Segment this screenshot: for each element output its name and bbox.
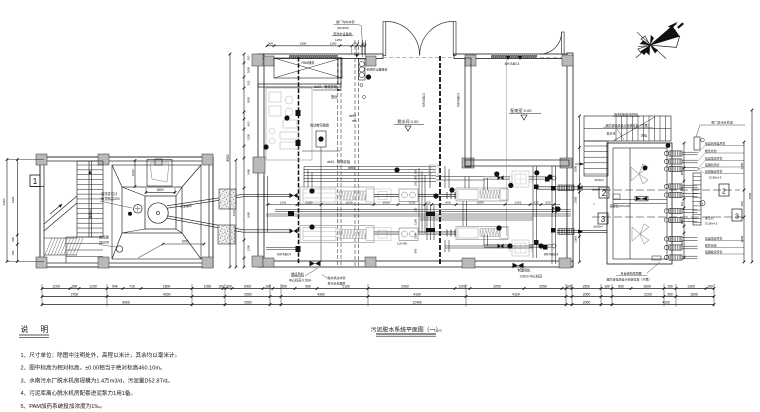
svg-text:1600: 1600 [643, 284, 651, 288]
sludge hopper with X funnel [112, 165, 201, 259]
svg-text:400: 400 [247, 121, 251, 126]
left room labels [88, 191, 193, 247]
svg-text:2000: 2000 [583, 292, 591, 296]
svg-text:推生化池: 推生化池 [705, 148, 717, 153]
svg-text:1250: 1250 [330, 42, 337, 46]
svg-text:MF/ABC4: MF/ABC4 [277, 253, 291, 257]
expansion joint dark dashed line [439, 56, 441, 265]
svg-text:风操: 风操 [641, 133, 647, 138]
bottom dimension chain row 3 [41, 300, 716, 305]
gray dashed pipe verticals [338, 40, 366, 266]
svg-text:接臭氧除臭风管: 接臭氧除臭风管 [705, 141, 725, 146]
svg-text:900: 900 [414, 248, 418, 253]
sewer label [694, 120, 745, 151]
svg-text:楼适风机: 楼适风机 [291, 272, 305, 277]
svg-text:中心标高 0.50m: 中心标高 0.50m [289, 278, 312, 283]
fan symbol lower [632, 224, 649, 244]
svg-text:de32，管线安装: de32，管线安装 [314, 84, 338, 89]
svg-text:425: 425 [533, 200, 538, 204]
svg-text:300: 300 [226, 284, 232, 288]
left room: sludge hopper & stair room outer walls [40, 157, 213, 267]
pipes into deodor unit with section labels [552, 176, 631, 248]
svg-text:600: 600 [618, 284, 624, 288]
svg-text:4200: 4200 [163, 292, 171, 296]
svg-text:200: 200 [281, 284, 287, 288]
svg-text:PAM储存: PAM储存 [301, 60, 315, 65]
svg-text:2000: 2000 [583, 300, 591, 304]
hopper dims [131, 159, 206, 258]
columns of left room [36, 154, 213, 268]
svg-text:1:100: 1:100 [434, 329, 442, 333]
svg-text:2500: 2500 [244, 292, 252, 296]
svg-text:1050: 1050 [414, 233, 418, 239]
fan symbol upper [631, 164, 648, 184]
svg-text:100: 100 [566, 284, 572, 288]
screw conveyor M4 [456, 227, 508, 240]
svg-text:（DN100）: （DN100） [335, 26, 351, 30]
svg-text:4300: 4300 [2, 198, 6, 205]
deodor stub labels right [698, 141, 745, 255]
svg-text:污泥脱水系统平面图（一）: 污泥脱水系统平面图（一） [371, 326, 442, 334]
deodor area dots [643, 143, 671, 170]
svg-text:1999: 1999 [477, 200, 484, 204]
svg-text:300: 300 [740, 201, 744, 206]
svg-text:1600: 1600 [690, 292, 698, 296]
drawing title [371, 326, 442, 337]
svg-text:WF/ABC4: WF/ABC4 [544, 253, 558, 257]
svg-text:450: 450 [680, 219, 684, 224]
svg-text:4100: 4100 [662, 300, 670, 304]
svg-text:1200: 1200 [52, 284, 60, 288]
svg-text:450: 450 [680, 186, 684, 191]
main building left wall [258, 55, 264, 267]
svg-text:1650: 1650 [181, 240, 188, 244]
svg-text:管顶标高300: 管顶标高300 [101, 196, 120, 201]
machine-row dimension texts [266, 200, 560, 206]
svg-text:525: 525 [545, 200, 550, 204]
svg-text:D159x4.5: D159x4.5 [705, 222, 718, 226]
grid bubble 1 [30, 175, 44, 187]
bottom dimension chain row 2 [41, 292, 716, 297]
svg-text:2500: 2500 [244, 300, 252, 304]
svg-text:推生化池: 推生化池 [705, 243, 717, 248]
machine room piping [264, 89, 607, 264]
PAM storage room [258, 58, 342, 87]
svg-text:808: 808 [445, 200, 450, 204]
svg-text:至厂区污水管道: 至厂区污水管道 [711, 120, 733, 125]
svg-text:1250: 1250 [335, 38, 342, 42]
building columns [252, 54, 573, 268]
svg-text:200: 200 [11, 237, 15, 242]
svg-text:配电室 0.00: 配电室 0.00 [511, 107, 533, 113]
svg-text:4、污泥库离心脱水机房配套进泥泵力1用1备。: 4、污泥库离心脱水机房配套进泥泵力1用1备。 [21, 389, 137, 397]
notes body [21, 351, 181, 410]
svg-text:400: 400 [353, 42, 358, 46]
svg-text:1800: 1800 [163, 284, 171, 288]
svg-text:750: 750 [351, 119, 356, 123]
svg-text:1480: 1480 [247, 168, 251, 175]
svg-text:150: 150 [414, 207, 418, 212]
svg-text:780: 780 [11, 250, 15, 255]
right yard vertical dims [573, 115, 581, 264]
svg-text:超声波电源设计安装位置（不属）: 超声波电源设计安装位置（不属） [605, 123, 650, 128]
svg-text:接臭塔双风管: 接臭塔双风管 [705, 156, 722, 161]
svg-text:接厂内中水管: 接厂内中水管 [336, 19, 355, 24]
small fittings in left room [116, 205, 142, 253]
svg-text:2050: 2050 [493, 284, 501, 288]
svg-text:900: 900 [305, 284, 311, 288]
svg-text:1800: 1800 [156, 188, 163, 192]
dark vertical pipe run x298 [298, 57, 300, 265]
svg-text:1: 1 [33, 176, 38, 186]
svg-text:2200: 2200 [740, 235, 744, 242]
deodor right pipe stubs (finned combs) [664, 151, 697, 260]
notes header [19, 324, 53, 337]
svg-text:2900: 2900 [401, 284, 409, 288]
sludge pipes from hopper to building [167, 194, 291, 232]
feed pump unit P1 [399, 189, 418, 202]
svg-text:接臭塔双风管: 接臭塔双风管 [705, 236, 722, 241]
PAM dosing equipment (gray) [266, 88, 312, 160]
svg-text:1050: 1050 [204, 284, 212, 288]
screw conveyor M3 [456, 188, 508, 201]
svg-text:150: 150 [414, 181, 418, 186]
floor drain valves on bottom wall [310, 261, 524, 269]
svg-text:MF/ABC4: MF/ABC4 [422, 93, 426, 107]
svg-text:1300: 1300 [573, 236, 577, 243]
svg-text:2200: 2200 [740, 162, 744, 169]
svg-text:1200: 1200 [247, 244, 251, 251]
centrifuge machine M1 [300, 187, 391, 204]
svg-text:1028: 1028 [383, 200, 390, 204]
svg-text:100: 100 [604, 284, 610, 288]
svg-text:200: 200 [247, 80, 251, 85]
svg-text:1600: 1600 [573, 196, 577, 203]
svg-text:12400: 12400 [412, 300, 421, 304]
svg-text:1000: 1000 [131, 169, 135, 176]
labels in upper hall [310, 84, 357, 262]
svg-text:说 明: 说 明 [21, 324, 54, 334]
main building top wall [258, 54, 567, 59]
svg-text:舟台结构风雨棚: 舟台结构风雨棚 [620, 271, 641, 276]
dewatering hall label [394, 118, 424, 131]
svg-text:1200: 1200 [458, 284, 466, 288]
main building right wall [567, 53, 573, 267]
power room label [509, 107, 541, 120]
svg-text:600: 600 [680, 201, 684, 206]
svg-text:8500: 8500 [226, 154, 230, 161]
concrete pipe-trench hatched blocks [218, 189, 236, 244]
ramp with arrow (left room lower-left) [44, 196, 83, 255]
svg-text:100: 100 [414, 175, 418, 180]
svg-text:1800: 1800 [247, 66, 251, 73]
main building bottom wall [258, 261, 573, 267]
svg-text:710: 710 [129, 284, 135, 288]
svg-text:540: 540 [112, 284, 118, 288]
svg-text:脱水间 0.00: 脱水间 0.00 [398, 118, 420, 124]
small rotated dims near pump cluster [397, 169, 417, 253]
svg-text:300: 300 [72, 284, 78, 288]
svg-text:制适风机: 制适风机 [518, 268, 532, 273]
svg-text:100: 100 [218, 284, 224, 288]
svg-text:D159x4.5: D159x4.5 [709, 176, 722, 180]
svg-text:溢流井位计: 溢流井位计 [101, 191, 118, 196]
svg-text:1000: 1000 [573, 165, 577, 172]
bottom dimension chain row 1 [41, 284, 716, 289]
svg-text:1301: 1301 [280, 200, 287, 204]
bottom wall labels with leaders [289, 268, 543, 286]
svg-text:1300: 1300 [414, 219, 418, 225]
stairs right (L-shaped) [575, 116, 671, 176]
svg-text:2、图中标高为相对标高，±0.00相当于绝对标高460.10: 2、图中标高为相对标高，±0.00相当于绝对标高460.10m。 [21, 364, 166, 372]
svg-text:集水坑: 集水坑 [606, 131, 615, 136]
svg-text:1300: 1300 [687, 284, 695, 288]
svg-text:1900: 1900 [300, 42, 307, 46]
svg-text:1130: 1130 [409, 200, 416, 204]
svg-text:1、尺寸单位：除图中注明处外，高程以米计，其余均以毫米计。: 1、尺寸单位：除图中注明处外，高程以米计，其余均以毫米计。 [21, 351, 181, 359]
svg-text:4500: 4500 [748, 192, 752, 199]
svg-text:自动卷帘装置: 自动卷帘装置 [310, 123, 329, 128]
svg-text:2050: 2050 [539, 284, 547, 288]
svg-text:1292: 1292 [515, 200, 522, 204]
svg-text:100: 100 [667, 284, 673, 288]
svg-text:300: 300 [247, 55, 251, 60]
svg-text:0.50m 中心标高: 0.50m 中心标高 [520, 274, 543, 279]
svg-text:3、水南污水厂脱水机房规模为1.4万m3/d，污泥量D52.: 3、水南污水厂脱水机房规模为1.4万m3/d，污泥量D52.8T/d。 [21, 376, 174, 384]
svg-text:1300: 1300 [247, 133, 251, 140]
far right vertical dims [740, 109, 754, 264]
labels above deodor unit [593, 112, 653, 207]
svg-text:300: 300 [268, 42, 273, 46]
top dimension band over building [266, 19, 367, 58]
svg-text:697: 697 [680, 240, 684, 245]
section line 2-2 [592, 184, 740, 196]
stub rotated dims [680, 142, 686, 260]
svg-text:至洗水设备用: 至洗水设备用 [333, 31, 352, 36]
svg-text:1100: 1100 [306, 200, 313, 204]
small black fittings right half [498, 175, 556, 249]
pipe sleeves (combs) at building right wall [558, 185, 574, 234]
svg-text:底漏板400x400: 底漏板400x400 [610, 203, 631, 208]
svg-text:2800: 2800 [247, 96, 251, 103]
svg-text:故空管: 故空管 [705, 215, 714, 220]
north arrow compass [636, 22, 684, 59]
section line 3-3 [592, 209, 745, 221]
svg-text:3320: 3320 [11, 196, 15, 203]
svg-text:底漏板双风管: 底漏板双风管 [705, 249, 722, 254]
svg-text:1500: 1500 [582, 284, 590, 288]
svg-text:4300: 4300 [317, 292, 325, 296]
labels below deodor unit [606, 262, 660, 282]
svg-text:4100: 4100 [512, 292, 520, 296]
double door (top, x383-454) [383, 21, 456, 57]
svg-text:2200: 2200 [644, 292, 652, 296]
svg-text:MF/ABC4: MF/ABC4 [505, 62, 520, 66]
svg-text:进泥管: 进泥管 [99, 235, 110, 240]
power distribution room walls [465, 58, 569, 167]
svg-text:1680: 1680 [247, 211, 251, 218]
svg-text:待合材料补风管线: 待合材料补风管线 [614, 112, 638, 117]
blower unit W2 [509, 240, 532, 256]
svg-text:5、PAM加药系统投加浓度为1‰。: 5、PAM加药系统投加浓度为1‰。 [21, 402, 106, 410]
manifold riser right of deodor [693, 173, 705, 225]
far-left vertical dims [2, 158, 44, 263]
svg-text:2000: 2000 [244, 284, 252, 288]
inlet valves [290, 193, 298, 234]
svg-text:4100: 4100 [413, 292, 421, 296]
stairs in left room [66, 161, 103, 263]
blower unit W1 [509, 171, 532, 187]
short pipe bottom-left [266, 248, 297, 250]
svg-text:2700: 2700 [71, 292, 79, 296]
svg-text:300: 300 [667, 292, 673, 296]
svg-text:倒流防止器组合: 倒流防止器组合 [367, 67, 388, 72]
balloon dots [263, 115, 560, 248]
svg-text:MF/ABC4: MF/ABC4 [457, 93, 461, 107]
MF/ABC4 labels [277, 56, 558, 257]
svg-text:d108x4: d108x4 [593, 225, 603, 229]
svg-text:3: 3 [601, 215, 606, 224]
svg-text:d108x4: d108x4 [594, 178, 604, 182]
svg-text:118 400: 118 400 [397, 242, 407, 246]
window in top wall (PAM room) [289, 55, 338, 57]
svg-text:250: 250 [414, 169, 418, 174]
svg-text:底漏双风管: 底漏双风管 [705, 162, 720, 167]
svg-text:6900: 6900 [122, 300, 130, 304]
svg-text:楼梯间: 楼梯间 [88, 209, 93, 218]
svg-text:2100: 2100 [342, 284, 350, 288]
tank at hopper top [147, 159, 172, 186]
pipe fittings (black) [288, 110, 301, 252]
svg-text:脱水机房水管: 脱水机房水管 [328, 275, 346, 280]
mid vertical dim chains between left room and building [226, 53, 251, 269]
svg-text:150: 150 [361, 42, 366, 46]
svg-text:超声波电源设计安装位置（不属）: 超声波电源设计安装位置（不属） [606, 277, 651, 282]
right-half upper pipes [484, 177, 552, 247]
svg-text:4100: 4100 [232, 209, 236, 216]
dimension extension lines [42, 284, 714, 307]
svg-text:de50: de50 [349, 114, 356, 118]
svg-text:登台: 登台 [331, 94, 337, 99]
anti-backflow label top right of PAM [349, 59, 388, 118]
svg-text:697: 697 [680, 170, 684, 175]
feed pump unit P2 [399, 228, 418, 241]
svg-text:1040: 1040 [346, 200, 353, 204]
single door (top right, 540-562) [540, 32, 564, 57]
centrifuge machine M2 [300, 226, 391, 243]
svg-text:DN200: DN200 [99, 241, 109, 245]
svg-text:de32，现场安装: de32，现场安装 [327, 159, 351, 164]
svg-text:接源板双风管: 接源板双风管 [705, 169, 722, 174]
window in top wall (power room) [491, 55, 537, 57]
svg-text:1200: 1200 [89, 284, 97, 288]
svg-text:2: 2 [722, 189, 726, 196]
svg-text:100: 100 [707, 284, 713, 288]
interior partition line x506 [506, 58, 508, 236]
deodorization unit box [607, 143, 672, 264]
svg-text:3: 3 [735, 214, 739, 221]
